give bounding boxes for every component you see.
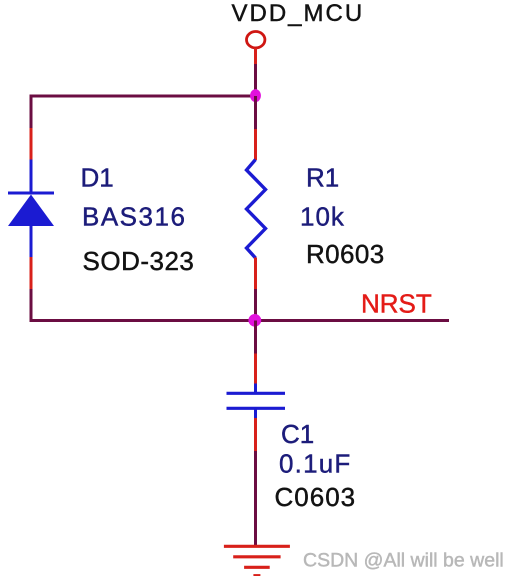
net label VDD_MCU <box>232 0 365 27</box>
capacitor C1 <box>227 384 286 420</box>
net label NRST <box>361 289 432 319</box>
svg-text:C1: C1 <box>281 419 314 449</box>
wire top horizontal <box>30 95 258 98</box>
svg-text:CSDN @All will be well: CSDN @All will be well <box>303 550 504 572</box>
label C1 value 0.1uF <box>279 449 352 479</box>
junction node VDD <box>250 89 261 102</box>
svg-text:NRST: NRST <box>361 289 432 319</box>
wire C1 to ground <box>254 451 257 546</box>
svg-text:0.1uF: 0.1uF <box>279 449 352 479</box>
label R1 value 10k <box>300 202 345 232</box>
pin D1 anode (red) <box>30 257 33 290</box>
diode D1 <box>8 160 54 258</box>
svg-text:VDD_MCU: VDD_MCU <box>232 0 365 27</box>
label C1 designator <box>281 419 314 449</box>
wire NRST junction down to C1 <box>254 321 257 355</box>
pin C1 top (red) <box>254 354 257 385</box>
label R1 designator <box>306 163 339 193</box>
wire NRST horizontal <box>30 319 450 322</box>
power port VDD_MCU circle <box>247 32 265 48</box>
wire left vertical top <box>30 95 33 130</box>
svg-text:SOD-323: SOD-323 <box>83 246 195 276</box>
wire R1 pin to NRST junction <box>254 289 257 322</box>
label D1 footprint SOD-323 <box>83 246 195 276</box>
wire VDD circle to junction (red pin part) <box>254 48 257 65</box>
wire junction VDD to R1 pin <box>254 96 257 129</box>
watermark CSDN <box>303 550 504 572</box>
label D1 value BAS316 <box>82 202 186 232</box>
wire left vertical bottom <box>30 289 33 322</box>
ground symbol <box>224 546 290 575</box>
label C1 footprint C0603 <box>275 482 357 512</box>
svg-text:R0603: R0603 <box>306 239 385 269</box>
svg-text:BAS316: BAS316 <box>82 202 186 232</box>
pin C1 bottom (red) <box>254 418 257 452</box>
label D1 designator <box>81 163 114 193</box>
svg-text:C0603: C0603 <box>275 482 357 512</box>
resistor R1 zigzag <box>247 160 266 259</box>
label R1 footprint R0603 <box>306 239 385 269</box>
pin R1 top (red) <box>254 128 257 160</box>
wire VDD circle to junction (maroon part) <box>254 64 257 96</box>
pin D1 cathode (red) <box>30 128 33 160</box>
svg-text:R1: R1 <box>306 163 339 193</box>
pin R1 bottom (red) <box>254 258 257 291</box>
svg-text:D1: D1 <box>81 163 114 193</box>
junction node NRST <box>248 314 261 327</box>
svg-text:10k: 10k <box>300 202 345 232</box>
